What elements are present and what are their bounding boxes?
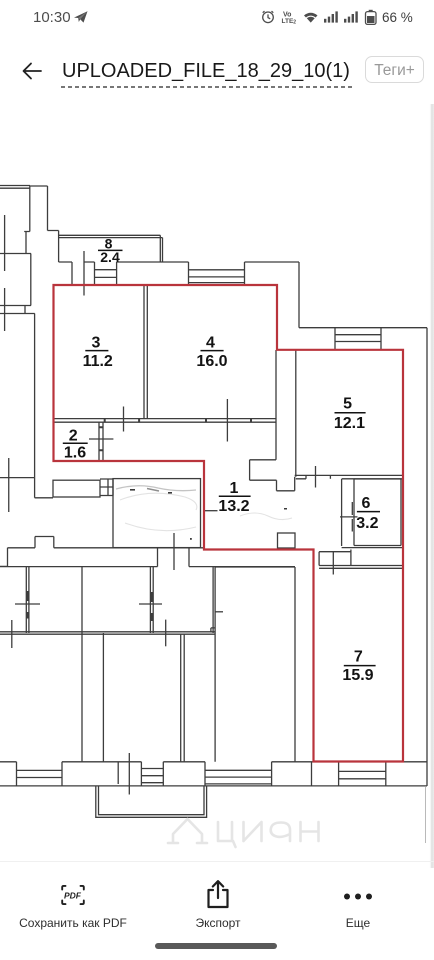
status bar notification paper plane icon	[73, 10, 89, 24]
exterior wall top right wing	[299, 328, 427, 786]
red apartment outline	[54, 285, 404, 762]
svg-text:16.0: 16.0	[196, 353, 227, 370]
svg-text:3: 3	[92, 334, 101, 351]
room 2 right wall	[89, 422, 113, 461]
window room3-balcony	[95, 262, 117, 285]
neighbor apartment top-left walls	[0, 186, 59, 478]
neighbor hall erased box	[0, 478, 201, 548]
room 5 left wall	[295, 350, 297, 477]
svg-text:15.9: 15.9	[342, 667, 373, 684]
bottom window 3	[205, 762, 272, 786]
neighbor rooms top wall	[0, 548, 295, 566]
header title dashed underline	[61, 85, 353, 89]
svg-text:2.4: 2.4	[100, 249, 120, 265]
wifi icon	[304, 13, 318, 23]
rooms 3 and 4 divider wall	[144, 286, 147, 419]
bottom window 2	[141, 762, 163, 786]
VoLTE2 icon	[282, 12, 297, 26]
tags chip	[365, 56, 424, 83]
bottom window 4 (room 7)	[339, 762, 386, 786]
bottom exterior wall band	[0, 762, 427, 786]
erasure dark specks	[130, 489, 287, 540]
save as PDF icon	[60, 883, 86, 907]
window ticks left edge	[4, 215, 6, 331]
svg-text:4: 4	[206, 334, 215, 351]
svg-text:12.1: 12.1	[334, 415, 365, 432]
page edge shadow right	[425, 787, 427, 843]
erasure scribbles	[120, 493, 292, 531]
battery icon	[366, 10, 377, 25]
exterior wall band top (y262-285)	[59, 262, 299, 328]
bottom window 1	[17, 762, 63, 786]
svg-text:5: 5	[343, 396, 352, 413]
more label	[310, 916, 406, 930]
tick crossing hall left red wall	[204, 510, 218, 512]
door tick room 3	[123, 407, 125, 432]
entrance porch	[96, 786, 207, 817]
svg-text:1.6: 1.6	[64, 445, 86, 462]
home indicator	[155, 943, 277, 950]
svg-text:3.2: 3.2	[356, 515, 378, 532]
tick neighbor hall door	[173, 533, 175, 570]
status bar right icons	[258, 8, 434, 26]
signal bars 1	[324, 11, 338, 22]
status bar	[33, 9, 71, 26]
svg-text:2: 2	[69, 428, 78, 445]
header back arrow	[20, 60, 44, 82]
bottom window tick	[128, 753, 130, 795]
neighbor left rooms walls	[0, 567, 215, 762]
alarm clock icon	[263, 11, 274, 23]
watermark cian logo	[168, 819, 319, 847]
ventilation shaft	[250, 460, 295, 491]
svg-text:11.2: 11.2	[83, 353, 113, 370]
door tick room 5	[315, 466, 317, 488]
svg-text:1: 1	[230, 480, 239, 497]
balcony 8 railing	[59, 235, 163, 262]
wall between rooms 4-5	[275, 350, 277, 460]
neighbor big room walls	[215, 567, 311, 786]
bottom bar separator	[0, 861, 434, 862]
room 5 bottom wall (double)	[295, 475, 403, 478]
export share icon	[204, 878, 232, 910]
svg-text:PDF: PDF	[64, 891, 82, 901]
door tick room 4	[226, 399, 228, 442]
rooms 3 and 4 bottom wall (double)	[54, 419, 277, 423]
window room 5 top	[335, 328, 381, 350]
fraction lines	[63, 250, 380, 665]
room 7 top wall	[319, 550, 403, 569]
neighbor separation wall	[0, 537, 203, 567]
signal bars 2	[344, 11, 358, 22]
svg-text:6: 6	[362, 495, 371, 512]
hall cupboard box	[278, 533, 296, 548]
svg-text:13.2: 13.2	[218, 498, 249, 515]
room 6 walls	[342, 479, 403, 548]
room number labels	[64, 236, 379, 684]
balcony door tick room 3	[83, 251, 85, 296]
door tick room 6	[340, 516, 358, 518]
export label	[150, 916, 286, 930]
header title	[62, 60, 350, 83]
more dots icon	[342, 891, 376, 902]
window room 4 top	[189, 262, 245, 285]
window tick lower-left	[8, 458, 10, 512]
door tick room 7	[332, 552, 334, 575]
neighbor door ticks	[12, 591, 162, 648]
svg-text:7: 7	[354, 648, 363, 665]
save as PDF label	[0, 916, 146, 930]
